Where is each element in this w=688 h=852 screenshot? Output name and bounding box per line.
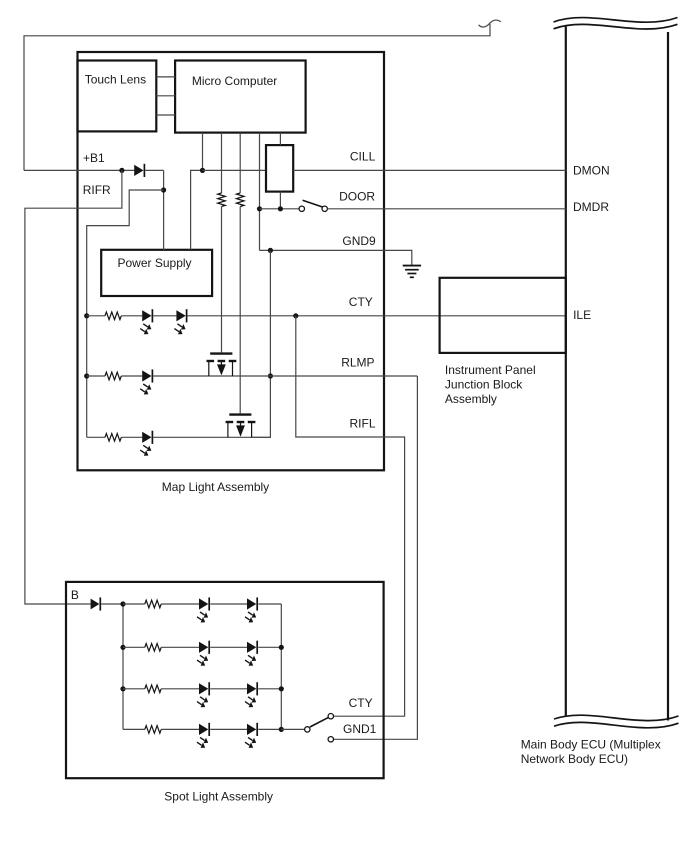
svg-text:ILE: ILE: [573, 308, 591, 322]
Spot Light Assembly box: [66, 582, 384, 778]
wire MC pin3 lead: [239, 133, 241, 193]
wire spot row1: [123, 603, 145, 605]
svg-text:Network Body ECU): Network Body ECU): [521, 752, 628, 766]
wire break squiggle (continuation symbol): [479, 20, 501, 27]
resistor R9: [145, 685, 161, 693]
switch SW2 (spot): [305, 727, 310, 732]
node R3 bottom junction: [278, 206, 283, 211]
node spot left bus row1: [120, 601, 125, 606]
svg-text:+B1: +B1: [83, 151, 105, 165]
resistor R5 (map row2): [105, 372, 121, 380]
Micro Computer block U1: [175, 61, 306, 133]
resistor R1 (gate of Q1): [218, 193, 226, 207]
Power Supply block: [101, 250, 212, 296]
transistor Q2 (MOSFET): [229, 413, 251, 415]
ECU bottom break wavy lines: [554, 715, 679, 720]
node spot right bus row3: [279, 686, 284, 691]
wire to spot switch: [281, 728, 304, 730]
ground symbol: [403, 265, 421, 267]
svg-text:RIFL: RIFL: [350, 417, 376, 431]
node RLMP row left: [84, 373, 89, 378]
wire RLMP to GND1: [334, 376, 418, 739]
diode D6 (B input): [91, 599, 100, 610]
node spot left bus row3: [120, 686, 125, 691]
LED D4: [142, 370, 151, 381]
svg-text:GND1: GND1: [343, 722, 377, 736]
wires Touch Lens to Micro Computer: [156, 76, 175, 78]
wire GND9 row: [260, 250, 412, 265]
wire spot right bus: [280, 604, 282, 729]
node DOOR junction: [257, 206, 262, 211]
node +B1/RIFR junction: [119, 168, 124, 173]
resistor R4 (map row1): [105, 312, 121, 320]
switch SW1 (door): [299, 206, 304, 211]
wire RIFR exit to spot light: [25, 170, 122, 604]
wire spot row2: [123, 646, 145, 648]
wire spot row3: [123, 688, 145, 690]
wire +B1 entry: [24, 169, 134, 171]
wire DOOR row: [260, 208, 300, 210]
LED D5: [142, 432, 151, 443]
svg-text:DMON: DMON: [573, 163, 610, 177]
ECU top break wavy lines: [554, 18, 678, 23]
svg-text:Instrument Panel: Instrument Panel: [445, 363, 536, 377]
resistor R6 (map row3): [105, 434, 121, 442]
wire diode to power supply: [145, 169, 163, 171]
resistor R10: [145, 726, 161, 734]
node RLMP junction: [268, 373, 273, 378]
wire GND return vertical: [252, 250, 271, 437]
wire MC pin4 down: [259, 133, 261, 251]
wire MC pin1 to power supply and CILL: [202, 133, 204, 171]
svg-text:CTY: CTY: [349, 696, 373, 710]
svg-text:Assembly: Assembly: [445, 392, 497, 406]
transistor Q1 (MOSFET): [210, 352, 232, 354]
svg-text:RLMP: RLMP: [341, 355, 374, 369]
LED D11: [199, 683, 208, 694]
wire CILL to ECU (DMON): [293, 169, 566, 171]
node CTY takeoff: [293, 313, 298, 318]
node spot left bus row4: [122, 728, 124, 730]
wire MC pin2 lead: [221, 133, 223, 193]
svg-text:DOOR: DOOR: [339, 189, 375, 203]
Touch Lens block: [78, 61, 157, 132]
svg-text:RIFR: RIFR: [83, 183, 111, 197]
LED D14: [247, 724, 256, 735]
svg-text:GND9: GND9: [342, 234, 376, 248]
LED D7: [199, 598, 208, 609]
wire CTY row: [87, 315, 105, 317]
wire anode feed staircase to LED bus: [87, 190, 164, 437]
diode D1 (+B1): [134, 165, 143, 176]
LED D3: [176, 310, 185, 321]
Instrument Panel Junction Block box: [440, 278, 566, 353]
resistor R3 (CILL pull-up box): [266, 145, 293, 192]
wire R1 to Q1 gate: [221, 207, 223, 353]
resistor R2 (gate of Q2): [236, 193, 244, 207]
resistor R7: [145, 600, 161, 608]
LED D10: [247, 642, 256, 653]
wire RIFL row: [87, 436, 105, 438]
svg-text:Spot Light Assembly: Spot Light Assembly: [164, 790, 273, 804]
node diode output junction: [161, 187, 166, 192]
LED D8: [247, 598, 256, 609]
wire RLMP row: [87, 375, 105, 377]
wire spot row4: [123, 728, 145, 730]
svg-text:B: B: [71, 588, 79, 602]
wire spot left bus: [122, 604, 124, 729]
resistor R8: [145, 644, 161, 652]
node CTY row left: [84, 313, 89, 318]
wire top feed from battery: [24, 24, 490, 170]
Main Body ECU left edge: [565, 27, 567, 716]
svg-text:Micro Computer: Micro Computer: [192, 74, 277, 88]
wire CILL left segment: [203, 169, 267, 171]
node MC pin1 junction: [200, 168, 205, 173]
node spot right bus row4: [279, 727, 284, 732]
LED D9: [199, 642, 208, 653]
svg-text:Touch Lens: Touch Lens: [85, 73, 146, 87]
node GND9 junction: [268, 248, 273, 253]
svg-text:DMDR: DMDR: [573, 200, 609, 214]
LED D2: [142, 310, 151, 321]
svg-text:Junction Block: Junction Block: [445, 378, 523, 392]
Main Body ECU right edge: [667, 32, 669, 721]
Map Light Assembly box: [78, 52, 385, 470]
svg-text:Power Supply: Power Supply: [118, 256, 192, 270]
wire R2 to Q2 gate: [239, 207, 241, 414]
wire diode to bus: [101, 603, 123, 605]
wire DOOR to ECU (DMDR): [327, 208, 565, 210]
node spot right bus row2: [279, 645, 284, 650]
svg-text:CTY: CTY: [349, 295, 373, 309]
svg-text:CILL: CILL: [350, 150, 376, 164]
wire CTY takeoff to spot switch: [296, 316, 405, 716]
svg-text:Main Body ECU (Multiplex: Main Body ECU (Multiplex: [521, 738, 661, 752]
node spot left bus row2: [120, 645, 125, 650]
LED D12: [247, 683, 256, 694]
LED D13: [199, 724, 208, 735]
svg-text:Map Light Assembly: Map Light Assembly: [162, 480, 269, 494]
